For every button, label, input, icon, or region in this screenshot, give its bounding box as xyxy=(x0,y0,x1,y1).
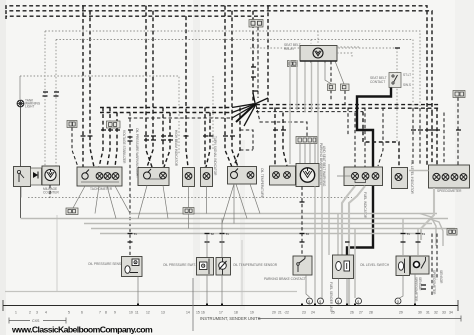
svg-text:CXS: CXS xyxy=(32,319,40,323)
fuel indicator feed arrow left xyxy=(337,175,352,177)
tick row y233 sensors xyxy=(128,234,421,243)
gray drop x355 xyxy=(354,229,356,299)
ground g2 xyxy=(318,298,324,304)
fuel ind gray elbow b xyxy=(342,186,355,255)
relay right leads gray xyxy=(337,46,360,48)
svg-text:g: g xyxy=(308,300,310,304)
svg-text:OIL TEMPERATURE SENSOR: OIL TEMPERATURE SENSOR xyxy=(233,263,278,267)
bold path stair left of speedo xyxy=(363,112,399,167)
G6 fan a xyxy=(222,184,234,224)
dotted bus under gauges y197 xyxy=(28,197,352,199)
svg-text:8: 8 xyxy=(105,311,107,315)
seat belt relay U1 xyxy=(300,46,337,64)
drop x275 xyxy=(274,108,276,167)
right vertical drop x427 lower xyxy=(426,108,428,165)
gray bus y223 xyxy=(84,223,432,225)
svg-text:28: 28 xyxy=(369,311,373,315)
gray frame wire left vertical xyxy=(56,215,58,291)
corner drop x110 xyxy=(109,108,111,122)
svg-text:1: 1 xyxy=(15,311,17,315)
relay side connector xyxy=(288,61,298,67)
wire: top feed bus 3 xyxy=(6,16,264,19)
small connector under G4 xyxy=(183,208,194,215)
group divider line xyxy=(192,278,194,331)
wire: relay drop to clock y122 xyxy=(256,105,307,137)
voltmeter fan b xyxy=(163,186,168,219)
gray dotted bus y39 xyxy=(56,40,413,109)
drop below connector x110 xyxy=(107,128,110,167)
sensor leads into boxes xyxy=(206,234,208,258)
G5 bottom lead xyxy=(206,187,208,214)
gray bus y218 xyxy=(21,218,449,220)
svg-text:TACHOMETER: TACHOMETER xyxy=(90,187,113,191)
tachometer G2 xyxy=(77,167,122,186)
svg-text:OIL PRESSURE SWIT.: OIL PRESSURE SWIT. xyxy=(163,263,196,267)
svg-text:T1: T1 xyxy=(226,232,230,236)
relay pin to connector D xyxy=(335,61,344,84)
relay pin lead gray x305 xyxy=(304,61,306,112)
gray drop x338 xyxy=(337,214,339,256)
dashed drop x437 bottom xyxy=(436,234,438,281)
gray dotted drop x55 xyxy=(55,40,57,167)
wire: vertical drop x153 xyxy=(147,11,153,167)
gray drop x290 xyxy=(289,60,291,164)
wire: vertical drop x225 xyxy=(225,6,232,167)
terminal numbers xyxy=(15,311,453,315)
svg-text:30: 30 xyxy=(418,311,422,315)
drop x348 xyxy=(347,108,349,136)
gray drop x403 xyxy=(402,219,404,256)
svg-text:SPEEDOMETER: SPEEDOMETER xyxy=(437,189,462,193)
svg-text:T4: T4 xyxy=(422,232,426,236)
drop from connector small left xyxy=(72,128,78,168)
mid dashed bus right 2 xyxy=(256,107,440,109)
oil pressure switch S2 xyxy=(197,258,214,276)
svg-text:FUEL SENDER UNIT: FUEL SENDER UNIT xyxy=(329,282,333,313)
relay pin connector D xyxy=(341,84,350,91)
clock bottom tick xyxy=(300,201,305,203)
svg-text:3: 3 xyxy=(36,311,38,315)
connector box x107 xyxy=(107,121,121,128)
svg-text:34: 34 xyxy=(449,311,453,315)
wire: corner x253 y130 xyxy=(240,130,253,150)
parking brake bottom lead xyxy=(306,275,310,297)
speedometer feed elbow gray xyxy=(409,170,429,172)
mid dashed bus y107 left xyxy=(100,107,232,109)
connector drop 4 xyxy=(314,144,316,165)
wire: top feed bus 1 xyxy=(6,6,427,108)
svg-text:g: g xyxy=(357,300,359,304)
connector drops to clock xyxy=(299,144,301,165)
drop x283 xyxy=(283,113,287,167)
bridge drop x258 xyxy=(257,27,259,98)
mid dashed bus y118 left xyxy=(128,117,232,119)
svg-text:4: 4 xyxy=(45,311,47,315)
scan shading band mid2 xyxy=(240,140,245,310)
ground g1 xyxy=(307,298,313,304)
gray dotted drop x45 xyxy=(44,31,46,166)
far right drop x458 xyxy=(457,98,459,166)
svg-text:26: 26 xyxy=(350,311,354,315)
diode housing box xyxy=(31,168,42,185)
wire: vertical drop x90 xyxy=(90,11,94,167)
relay top feed a xyxy=(310,40,312,44)
fuel sender bottom leads xyxy=(338,279,340,299)
gray dotted drop x213 xyxy=(212,76,214,150)
fuel gauge left assembly box xyxy=(14,167,31,187)
svg-text:PARKING BRAKE CONTACT: PARKING BRAKE CONTACT xyxy=(264,277,306,281)
svg-text:27: 27 xyxy=(359,311,363,315)
tank warning light lead xyxy=(19,76,21,99)
voltmeter gauge G3 xyxy=(138,168,169,186)
oil temperature indicator G6 xyxy=(228,167,257,185)
scan shading band right xyxy=(455,0,474,335)
svg-text:21: 21 xyxy=(278,311,282,315)
relay right lead 2 xyxy=(337,53,352,58)
svg-text:T3: T3 xyxy=(306,232,310,236)
connector D drop xyxy=(344,91,346,105)
svg-text:SW.S: SW.S xyxy=(403,83,411,87)
svg-text:www.ClassicKabelboomCompany.co: www.ClassicKabelboomCompany.com xyxy=(11,325,153,335)
gray drop x329 xyxy=(328,164,330,255)
svg-text:19: 19 xyxy=(250,311,254,315)
svg-text:29: 29 xyxy=(399,311,403,315)
svg-text:33: 33 xyxy=(442,311,446,315)
tach fan wire a xyxy=(70,186,85,214)
dashed drop x432 bottom xyxy=(431,234,433,296)
drop x170 xyxy=(164,113,170,168)
relay pin connector C xyxy=(328,84,336,91)
instrument bracket line xyxy=(258,316,461,322)
svg-text:VOLTAGE STABILIZER: VOLTAGE STABILIZER xyxy=(122,130,126,164)
svg-text:15: 15 xyxy=(196,311,200,315)
svg-text:10: 10 xyxy=(129,311,133,315)
wire: vertical drop x146 xyxy=(146,6,152,167)
oil pressure sensor B1 xyxy=(122,257,143,277)
mileage counter bottom lead xyxy=(49,185,51,198)
drop x383 xyxy=(378,108,383,167)
svg-text:-22: -22 xyxy=(284,311,289,315)
svg-text:5: 5 xyxy=(68,311,70,315)
far right connector box xyxy=(453,91,465,98)
divider line 2 xyxy=(241,240,243,305)
junction heavy ray xyxy=(236,104,256,122)
ground g5 xyxy=(395,298,401,304)
seat belt contact switch S1 xyxy=(389,73,401,88)
T labels beside ticks xyxy=(134,232,426,236)
tach fan wire d xyxy=(115,186,130,214)
speedo gray loop xyxy=(421,188,434,240)
sensor lead x222 xyxy=(221,219,223,259)
ground g3 xyxy=(336,298,342,304)
svg-text:COUNTER: COUNTER xyxy=(43,191,59,195)
mid dashed bus y112 left xyxy=(100,112,232,114)
fuel ind gray elbow a xyxy=(349,186,365,305)
svg-text:ST.LT: ST.LT xyxy=(403,73,411,77)
svg-text:OIL LEVEL INDICATOR: OIL LEVEL INDICATOR xyxy=(410,160,414,195)
tach fan wire b xyxy=(95,186,99,214)
parking brake contact S3 xyxy=(293,256,312,275)
connector bridge box top xyxy=(249,20,263,28)
G6 fan c xyxy=(236,184,247,219)
wire: top feed bus 2 xyxy=(6,11,432,112)
G4 bottom lead xyxy=(188,187,190,208)
svg-text:g: g xyxy=(319,300,321,304)
speedo sensor bottom lead xyxy=(414,274,416,305)
svg-text:RELAY: RELAY xyxy=(284,47,295,51)
svg-text:INSTRUMENT, SENDER UNITS: INSTRUMENT, SENDER UNITS xyxy=(200,316,261,321)
drop x163 xyxy=(162,108,164,168)
relay pin lead x325 xyxy=(325,61,332,84)
gray dotted drop x397 oil level feed xyxy=(396,48,398,142)
svg-text:SPEEDOMETER: SPEEDOMETER xyxy=(414,277,418,302)
oil level switch S4 xyxy=(396,256,410,276)
gray drop x418 xyxy=(417,229,419,256)
tank warning light down lead xyxy=(20,107,22,218)
gray dotted bus y76 xyxy=(20,76,179,155)
right vertical drop x420 xyxy=(419,108,421,165)
svg-text:LIGHT: LIGHT xyxy=(25,105,34,109)
mid dashed bus right 1 xyxy=(256,104,440,106)
gray bus y228 xyxy=(91,228,455,230)
svg-text:32: 32 xyxy=(434,311,438,315)
small gauge G5 xyxy=(201,168,213,187)
right vertical drop x432 lower xyxy=(431,112,433,165)
wire: vertical drop x253 relay feed xyxy=(252,11,254,104)
speedometer sensor B3 xyxy=(411,256,430,274)
gray bus curve right a xyxy=(420,214,436,247)
short bus y150 xyxy=(240,149,253,151)
svg-text:OIL LEVEL SWITCH: OIL LEVEL SWITCH xyxy=(360,263,390,267)
svg-text:TURN SIGNAL INDICATOR: TURN SIGNAL INDICATOR xyxy=(213,136,217,176)
thick black wire: fuel gauge down to sender xyxy=(347,186,373,255)
clock bottom dashed lead xyxy=(301,187,303,256)
voltmeter fan a xyxy=(138,186,147,219)
drop x365 fuel2 xyxy=(364,108,366,168)
junction starburst wires xyxy=(232,93,268,126)
svg-text:7: 7 xyxy=(99,311,101,315)
relay pin lead x318 gray long xyxy=(317,61,319,164)
svg-text:24: 24 xyxy=(311,311,315,315)
gray drop x315 long xyxy=(314,187,316,306)
svg-text:6: 6 xyxy=(81,311,83,315)
corner drop x117 xyxy=(116,113,118,122)
small connector under left group xyxy=(66,208,78,215)
svg-text:T2: T2 xyxy=(211,232,215,236)
wire: vertical drop x268 xyxy=(267,6,269,104)
scan shading band left xyxy=(0,0,6,335)
svg-text:OIL PRESSURE SENSOR: OIL PRESSURE SENSOR xyxy=(88,262,126,266)
drop x130 oil pressure warn xyxy=(129,113,131,256)
tach fan wire c xyxy=(107,186,116,219)
oil pressure switch bottom lead xyxy=(206,275,208,305)
tick row y130: connectors on vertical wires xyxy=(43,48,462,141)
svg-text:OIL TEMPERATURE: OIL TEMPERATURE xyxy=(260,168,264,198)
svg-text:13: 13 xyxy=(161,311,165,315)
terminal strip line xyxy=(3,300,458,311)
relay pin lead x331 dashed xyxy=(330,61,332,100)
gray bus curve right b xyxy=(428,219,443,247)
tank warning light xyxy=(17,100,24,107)
svg-text:FUEL INDICATOR: FUEL INDICATOR xyxy=(363,192,367,219)
svg-text:25: 25 xyxy=(331,311,335,315)
svg-text:T1: T1 xyxy=(134,232,138,236)
drop x210 xyxy=(206,113,210,168)
svg-text:CONTACT: CONTACT xyxy=(370,80,385,84)
clock gauge G8 xyxy=(296,164,319,187)
svg-text:17: 17 xyxy=(219,311,223,315)
oil temperature sensor bottom lead xyxy=(221,275,223,305)
small gauge G4 xyxy=(183,168,195,187)
connector box right mid xyxy=(447,229,457,236)
svg-text:T1: T1 xyxy=(407,232,411,236)
oil temperature sensor R1 xyxy=(216,258,231,276)
svg-text:14: 14 xyxy=(186,311,190,315)
gray dotted bus y48 xyxy=(250,47,397,49)
drop x205 xyxy=(204,108,206,168)
svg-text:HIGH BEAM INDICATOR: HIGH BEAM INDICATOR xyxy=(174,130,178,167)
G6 fan b xyxy=(233,184,235,224)
gray drop x322 xyxy=(321,164,323,298)
drop x355 fuel1 xyxy=(354,113,356,168)
svg-text:SENSOR: SENSOR xyxy=(439,270,443,284)
svg-text:g: g xyxy=(337,300,339,304)
fuel sender unit B2 xyxy=(333,255,354,279)
fuel indicator G9 xyxy=(344,167,383,186)
wire: vertical drop x232 xyxy=(232,11,238,167)
oil level indicator G10 xyxy=(392,168,408,189)
svg-text:23: 23 xyxy=(302,311,306,315)
connector drop 3 xyxy=(309,144,311,165)
fuel sender bottom lead 2 xyxy=(346,279,348,306)
relay top feed b xyxy=(317,31,319,44)
mileage counter M1 xyxy=(42,166,60,185)
right vertical drop x437 xyxy=(436,108,438,166)
left assembly bottom lead xyxy=(20,187,22,198)
gray frame wire bottom horizontal xyxy=(5,291,297,293)
svg-text:g: g xyxy=(397,300,399,304)
svg-text:SPEEDOMETER: SPEEDOMETER xyxy=(432,270,436,295)
svg-text:18: 18 xyxy=(234,311,238,315)
drop x240 xyxy=(234,108,240,167)
gray bus y233 xyxy=(100,233,420,235)
speedo sensor ticks below xyxy=(421,285,426,289)
ground g4 xyxy=(356,298,362,304)
CXS bracket xyxy=(9,318,66,324)
relay bottom edge xyxy=(300,60,337,62)
right vertical drop x444 xyxy=(443,113,445,166)
oil level switch bottom lead xyxy=(399,276,404,299)
G4 connector down lead xyxy=(188,214,190,229)
oil pressure indicator G7 xyxy=(270,166,296,185)
drop below connector x117 xyxy=(115,128,117,167)
right vertical drop x413 xyxy=(412,108,414,165)
gray bus y213 xyxy=(130,213,437,215)
svg-text:9: 9 xyxy=(114,311,116,315)
connector box small left xyxy=(67,121,77,128)
speedometer G11 xyxy=(429,165,470,188)
oil pressure sensor bottom lead xyxy=(137,277,139,306)
thick black wire: contact to fuel gauge xyxy=(357,88,391,168)
connector drop 2 xyxy=(304,144,306,165)
gray dotted bus y31 xyxy=(45,31,420,108)
gray drop x297 xyxy=(296,60,298,110)
multi-pin connector under clock feed xyxy=(296,137,317,144)
mid dashed bus right 3 xyxy=(256,111,363,113)
svg-text:16: 16 xyxy=(201,311,205,315)
svg-text:31: 31 xyxy=(426,311,430,315)
svg-text:12: 12 xyxy=(146,311,150,315)
relay pin lead x311 xyxy=(311,61,313,112)
wire: vertical drop x83 xyxy=(82,6,84,167)
svg-text:2: 2 xyxy=(29,311,31,315)
svg-text:20: 20 xyxy=(272,311,276,315)
G6 fan d xyxy=(250,184,260,214)
corner drop x103 xyxy=(99,108,103,168)
scan shading band center xyxy=(193,0,200,300)
svg-text:11: 11 xyxy=(135,311,139,315)
wire landing dots on terminal strip xyxy=(137,304,416,306)
wire: vertical drop x186 xyxy=(186,16,188,167)
